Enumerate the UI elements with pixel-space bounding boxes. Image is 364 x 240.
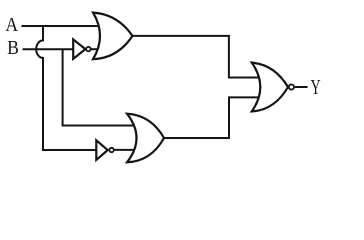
svg-text:A: A xyxy=(5,15,18,36)
svg-text:Y: Y xyxy=(311,75,321,99)
svg-text:B: B xyxy=(7,38,19,59)
